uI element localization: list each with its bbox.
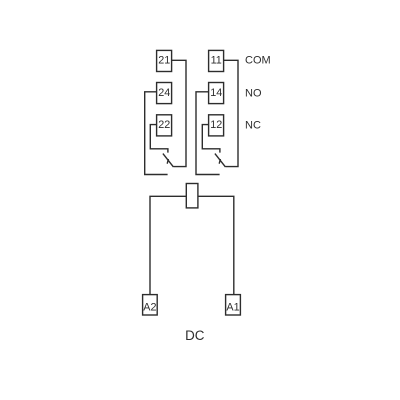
svg-text:DC: DC [185, 328, 205, 343]
svg-text:NO: NO [245, 87, 262, 99]
switch tick pole 2 [219, 159, 220, 164]
svg-text:14: 14 [210, 87, 222, 99]
terminal A2 [143, 295, 158, 315]
terminal 21 [157, 50, 172, 71]
wire 11 to pole-2 common [224, 60, 238, 166]
wire 12 to pole-2 NC contact [202, 125, 220, 153]
wire 21 to pole-1 common [172, 60, 186, 166]
wire coil to A2 [150, 196, 186, 294]
svg-text:A1: A1 [226, 302, 239, 314]
terminal 24 [157, 83, 172, 104]
svg-text:21: 21 [158, 55, 170, 67]
wire coil to A1 [198, 196, 234, 294]
terminal A1 [226, 295, 241, 315]
wire 24 to pole-1 NO contact [145, 92, 168, 175]
switch tick pole 1 [167, 159, 168, 164]
svg-text:24: 24 [158, 87, 170, 99]
switch arm pole 2 [215, 154, 226, 167]
terminal 11 [209, 50, 224, 71]
coil K1 [186, 184, 198, 208]
terminal 22 [157, 115, 172, 136]
terminal 12 [209, 115, 224, 136]
svg-text:22: 22 [158, 119, 170, 131]
switch arm pole 1 [163, 154, 174, 167]
wire 14 to pole-2 NO contact [196, 92, 220, 175]
svg-text:A2: A2 [143, 302, 156, 314]
wire 22 to pole-1 NC contact [150, 125, 168, 153]
svg-text:NC: NC [245, 120, 261, 132]
svg-text:COM: COM [245, 55, 271, 67]
terminal 14 [209, 83, 224, 104]
svg-text:12: 12 [210, 119, 222, 131]
svg-text:11: 11 [211, 55, 222, 67]
